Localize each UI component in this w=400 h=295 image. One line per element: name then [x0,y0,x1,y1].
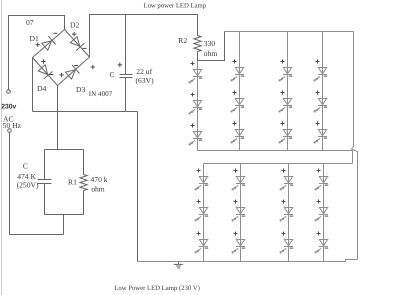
LED bottom bank col3 #1 [280,169,293,191]
svg-text:D1: D1 [30,34,39,43]
polarity mark D1 minus [53,32,57,34]
LED top bank col2 #1 [231,60,244,82]
LED top bank col4 #2 [314,91,327,113]
svg-text:22 uf: 22 uf [136,67,152,76]
wire: bottom bank column 4 [323,164,325,262]
wire: right side long wire with hop [352,32,358,260]
capacitor C 474K plates [38,180,52,184]
svg-text:230v: 230v [1,103,16,110]
svg-text:ohm: ohm [204,49,218,58]
LED top bank col3 #1 [279,60,292,82]
terminal: AC live (230v) [7,90,11,94]
LED bottom bank col1 #2 [195,200,208,222]
wire: capacitor bottom to negative line [125,78,127,112]
LED bottom bank col2 #1 [232,169,245,191]
LED bottom bank col1 #3 [195,232,208,254]
ground symbol [174,262,183,269]
svg-text:ohm: ohm [91,185,105,194]
LED top bank col2 #3 [231,122,244,144]
wire: top bank column 4 [322,32,324,151]
LED bottom bank col2 #2 [232,200,245,222]
scan artifact: faint left edge line [1,0,3,295]
LED bottom bank col2 #3 [232,232,245,254]
LED top bank col2 #2 [231,91,244,113]
svg-text:R2: R2 [178,36,187,45]
polarity mark D2 plus [72,32,76,36]
LED top bank col4 #3 [314,122,327,144]
svg-text:IN 4007: IN 4007 [89,90,113,98]
LED bottom bank col4 #3 [315,232,328,254]
wire: bottom return to AC neutral terminal [10,132,64,234]
svg-text:D2: D2 [70,21,79,30]
plus mark at bridge + output node [91,65,95,69]
capacitor C 22uf top lead [125,15,127,75]
LED top bank col3 #2 [279,91,292,113]
resistor R2 top lead [197,15,199,36]
polarity mark D3 minus [74,65,78,67]
polarity mark D2 minus [83,47,87,49]
resistor R2 zigzag [194,36,201,52]
wire: bottom bank column 2 [240,164,242,262]
plus mark filter cap [118,63,122,67]
wire: mid bus lower (bottom bank anode bus) [204,163,353,165]
svg-text:Low Power LED Lamp (230 V): Low Power LED Lamp (230 V) [114,285,200,292]
wire: top bank column 3 [287,32,289,151]
terminal: AC neutral [8,129,12,133]
polarity mark D3 plus [59,73,63,77]
diode D4 symbol [38,65,52,79]
diode D3 symbol [66,65,80,79]
capacitor C 22uf plates [120,75,133,78]
wire: negative line down to bottom bus [137,112,139,262]
wire: bridge arm for D1 [33,30,65,58]
LED bottom bank col4 #1 [315,169,328,191]
wire: mid bus right link down [352,151,354,164]
svg-text:D4: D4 [37,84,46,93]
svg-text:R1: R1 [68,177,77,186]
wire: bridge + output up to top rail [90,15,198,58]
svg-text:07: 07 [26,18,34,27]
wire: bridge AC bottom vertex down to dropper box [57,86,59,150]
svg-text:C: C [23,162,28,171]
resistor R2 bottom lead [197,52,199,61]
polarity mark D4 plus [41,59,45,63]
wire: bridge negative output down [32,58,34,112]
LED top bank col4 #1 [314,60,327,82]
polarity mark D1 plus [36,43,40,47]
wire: bridge arm for D3 [58,57,90,86]
wire: top bank column 1 [197,61,199,151]
wire: dropper box output down [63,215,65,235]
wire: mid bus upper (top bank cathode bus) [198,150,353,152]
wire: bridge arm for D4 [33,58,58,86]
polarity mark D4 minus [50,74,54,76]
LED top bank col1 #2 [189,93,202,115]
wire: from 230v terminal up and across to bridge top [9,16,65,90]
svg-text:D3: D3 [76,85,85,94]
LED top bank col1 #3 [189,124,202,146]
LED bottom bank col3 #3 [280,232,293,254]
diode D1 symbol [42,36,56,50]
LED top bank col1 #1 [189,62,202,84]
LED bottom bank col1 #1 [195,169,208,191]
svg-text:(63V): (63V) [136,76,155,85]
resistor R1 zigzag [80,175,87,191]
svg-text:330: 330 [204,39,216,48]
wire: negative horizontal line [33,111,138,113]
wire: bottom bus [138,260,358,262]
svg-text:50 Hz: 50 Hz [3,121,22,130]
wire: bridge arm for D2 [65,30,90,58]
LED top bank col3 #3 [279,122,292,144]
dropper box outline (C 474K parallel R1) [45,150,84,215]
wire: bottom bank column 1 [203,164,205,262]
svg-text:Low power LED Lamp: Low power LED Lamp [144,2,207,9]
svg-text:C: C [110,70,115,79]
diode D2 symbol [70,37,84,51]
LED bottom bank col4 #2 [315,200,328,222]
wire: bottom bank column 3 [288,164,290,262]
wire: R2 output across and up to LED top bus [198,32,225,61]
svg-text:470 k: 470 k [91,175,108,184]
wire: LED top bus [225,31,354,33]
wire: top bank column 2 [239,32,241,151]
svg-text:(250V): (250V) [17,181,39,190]
LED bottom bank col3 #2 [280,200,293,222]
